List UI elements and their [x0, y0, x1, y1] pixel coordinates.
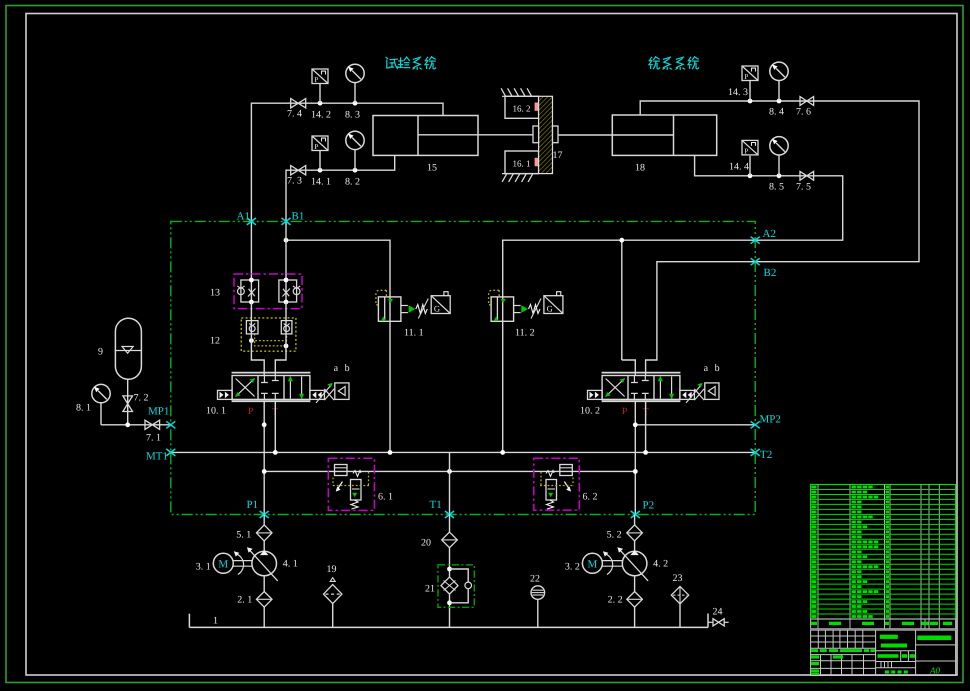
- valve 10.2 crossed arrows: [606, 379, 625, 397]
- check valve 13 right: [285, 280, 287, 302]
- svg-text:11. 1: 11. 1: [404, 328, 424, 339]
- svg-text:20: 20: [421, 538, 431, 549]
- wire pump column 4. 1: [263, 515, 265, 628]
- variable pump 4. 2: [622, 551, 647, 576]
- parts list table: [811, 485, 956, 620]
- wire B1 into block 13: [285, 221, 287, 280]
- gauge 8.4: [777, 99, 782, 104]
- svg-text:4. 1: 4. 1: [283, 559, 298, 570]
- variable pump 4. 1: [252, 551, 277, 576]
- valve 10.1 left solenoid: [218, 390, 233, 399]
- pilot lines 12: [251, 334, 286, 346]
- svg-text:P1: P1: [247, 499, 259, 511]
- wire A1 riser and gauge line: [251, 103, 443, 221]
- node A1: [247, 218, 256, 225]
- wire A2 loop: [503, 155, 843, 452]
- relief valve 6.1 pilot lines: [333, 472, 369, 486]
- valve 10.1 parallel arrows: [289, 377, 291, 399]
- svg-text:MT1: MT1: [146, 451, 168, 463]
- svg-text:7. 6: 7. 6: [796, 107, 811, 118]
- directional valve 10.2 body: [602, 372, 681, 374]
- svg-text:P: P: [744, 146, 748, 155]
- rotation arrow 3. 2: [604, 554, 612, 575]
- svg-text:2. 2: 2. 2: [608, 595, 623, 606]
- relief valve 6.1 pilot poppet: [335, 465, 348, 476]
- svg-text:8. 3: 8. 3: [345, 110, 360, 121]
- svg-text:6. 2: 6. 2: [583, 492, 598, 503]
- wire pump column 4. 2: [634, 515, 636, 628]
- tank rail 1: [189, 626, 708, 628]
- node T1: [445, 511, 454, 518]
- directional valve 10.1 body: [232, 372, 311, 374]
- svg-text:12: 12: [210, 336, 220, 347]
- svg-text:11. 2: 11. 2: [515, 328, 535, 339]
- valve 10.2 right solenoid: [680, 390, 695, 399]
- accumulator 9: [115, 318, 141, 379]
- rod coupling left: [533, 126, 539, 143]
- node B1: [282, 218, 291, 225]
- return filter 20: [449, 515, 451, 628]
- wire B1 riser and gauge line: [286, 155, 395, 221]
- support hatch top: [501, 88, 506, 96]
- title block texts: [811, 635, 951, 676]
- wire P relief rail: [264, 470, 635, 472]
- svg-text:7. 4: 7. 4: [287, 109, 302, 120]
- svg-text:5. 1: 5. 1: [236, 530, 251, 541]
- solenoid valve 11.2 pilot line: [489, 290, 500, 305]
- wire A2 jog into 10.2: [622, 360, 636, 376]
- force sensor 16.1: [505, 151, 539, 174]
- svg-text:8. 2: 8. 2: [345, 177, 360, 188]
- svg-text:T1: T1: [430, 499, 442, 511]
- valve 7.1: [145, 420, 152, 429]
- gauge 8.3: [354, 83, 356, 104]
- pressure sensor 14.4: [748, 173, 753, 178]
- return filter 2. 2: [627, 592, 643, 608]
- svg-text:22: 22: [530, 574, 540, 585]
- valve 7.5: [800, 171, 807, 180]
- solenoid valve 11.2 coil: [544, 296, 563, 314]
- svg-text:b: b: [345, 363, 350, 374]
- air breather 19: [332, 604, 334, 628]
- svg-text:3. 2: 3. 2: [565, 562, 580, 573]
- valve 7.2: [123, 396, 133, 404]
- rod coupling right: [553, 126, 559, 143]
- motor 3. 2: [582, 553, 602, 573]
- svg-text:18: 18: [635, 163, 645, 174]
- orifice block 12 boundary: [241, 318, 296, 351]
- svg-text:13: 13: [210, 288, 220, 299]
- svg-text:8. 5: 8. 5: [769, 182, 784, 193]
- node MT1: [166, 449, 175, 456]
- valve 10.1 spring box: [335, 383, 349, 400]
- valve 10.2 parallel arrows: [659, 377, 661, 399]
- svg-text:A2: A2: [763, 228, 776, 240]
- solenoid valve 11.2: [491, 297, 513, 321]
- valve 10.2 spring box: [705, 383, 719, 400]
- force sensor 16.2: [505, 96, 539, 118]
- svg-text:G: G: [434, 304, 440, 314]
- svg-text:3. 1: 3. 1: [196, 562, 211, 573]
- gauge 8.5: [777, 173, 782, 178]
- node P2: [631, 511, 640, 518]
- parts list header row: [811, 619, 956, 629]
- wire T1 riser: [449, 452, 451, 514]
- wire B1 branch to 11.1: [286, 240, 390, 452]
- suction filter 5. 2: [627, 525, 643, 541]
- valve 10.2 proportional slash: [686, 384, 702, 403]
- relief valve 6.2 pilot lines: [540, 472, 573, 486]
- svg-text:7. 3: 7. 3: [287, 176, 302, 187]
- svg-text:14. 1: 14. 1: [311, 177, 331, 188]
- air filter 23: [679, 604, 681, 628]
- valve 10.2 centre blocks: [631, 376, 649, 400]
- valve 10.1 crossed arrows: [236, 379, 255, 397]
- gauge 8.2: [354, 150, 356, 171]
- relief valve 6.1 main stage: [353, 471, 361, 477]
- svg-text:16. 1: 16. 1: [513, 159, 531, 169]
- svg-text:B1: B1: [292, 211, 305, 223]
- check valve block 13 boundary: [234, 274, 302, 309]
- wire A1 into block 13: [250, 221, 252, 280]
- svg-text:2. 1: 2. 1: [237, 595, 252, 606]
- svg-text:M: M: [588, 558, 598, 570]
- svg-text:a: a: [704, 363, 709, 374]
- node dot 8.2: [353, 168, 358, 173]
- svg-text:15: 15: [427, 163, 437, 174]
- valve 7.6: [800, 97, 807, 106]
- svg-text:a: a: [334, 363, 339, 374]
- solenoid valve 11.1: [378, 297, 401, 321]
- wire P2 from valve 10.2: [634, 401, 636, 514]
- wire A2 branch to valve 10.2 port: [621, 240, 623, 360]
- drain valve 24: [708, 621, 713, 623]
- node dot 8.3: [353, 101, 358, 106]
- wire P1 from valve 10.1: [263, 401, 265, 514]
- svg-text:M: M: [218, 558, 228, 570]
- svg-text:23: 23: [673, 573, 683, 584]
- svg-text:19: 19: [327, 564, 337, 575]
- svg-text:9: 9: [98, 347, 103, 358]
- svg-text:P: P: [314, 142, 318, 151]
- svg-text:14. 4: 14. 4: [729, 162, 749, 173]
- gauge 8.1: [100, 403, 102, 425]
- svg-text:P: P: [248, 407, 253, 417]
- svg-text:14. 3: 14. 3: [728, 87, 748, 98]
- svg-text:8. 1: 8. 1: [76, 403, 91, 414]
- solenoid valve 11.1 pilot line: [376, 290, 387, 305]
- svg-text:1: 1: [213, 616, 218, 627]
- svg-text:T2: T2: [760, 449, 772, 461]
- svg-text:P: P: [622, 407, 627, 417]
- svg-text:G: G: [547, 304, 553, 314]
- svg-text:21: 21: [425, 584, 435, 595]
- wire A1 through 13/12 to valve 10.1: [251, 302, 264, 376]
- load wall 17: [539, 96, 553, 173]
- shaft 3. 2-4. 2: [602, 560, 622, 562]
- return filter 2. 1: [256, 592, 272, 608]
- svg-text:MP2: MP2: [760, 414, 781, 426]
- manifold boundary: [171, 221, 755, 514]
- valve 10.2 left solenoid: [588, 390, 603, 399]
- wire MT1-T2 tank rail: [171, 451, 755, 453]
- pressure sensor 14.2: [319, 84, 321, 104]
- relief valve 6.2 boundary: [534, 458, 580, 510]
- node dot 14.1: [318, 168, 323, 173]
- svg-text:A0: A0: [929, 665, 940, 675]
- svg-text:6. 1: 6. 1: [378, 492, 393, 503]
- valve 7.3: [291, 166, 299, 175]
- node P1: [260, 511, 269, 518]
- valve 10.1 right solenoid: [310, 390, 325, 399]
- duplex filter 21: [447, 567, 452, 572]
- relief valve 6.2 pilot poppet: [560, 465, 573, 476]
- label load-system header: [649, 57, 699, 69]
- node dot 14.2: [318, 101, 323, 106]
- relief valve 6.1 boundary: [328, 458, 374, 510]
- node B2: [751, 258, 760, 265]
- orifice 12 right: [281, 321, 292, 334]
- svg-text:4. 2: 4. 2: [653, 559, 668, 570]
- relief valve 6.2 main stage: [546, 471, 554, 477]
- node T2: [751, 449, 760, 456]
- svg-text:7. 2: 7. 2: [134, 393, 149, 404]
- svg-text:B2: B2: [764, 267, 777, 279]
- solenoid valve 11.1 coil: [431, 296, 450, 314]
- node MP2: [751, 421, 760, 428]
- node MP1: [166, 421, 175, 428]
- level gauge 22: [537, 599, 539, 627]
- label test-system header: [386, 57, 436, 69]
- solenoid valve 11.1 actuator: [401, 305, 408, 307]
- check valve 13 left: [250, 280, 252, 302]
- wire MP2 line: [635, 424, 755, 426]
- support hatch bottom: [502, 174, 507, 182]
- svg-text:24: 24: [713, 607, 723, 618]
- rotation arrow 3. 1: [235, 554, 243, 575]
- svg-text:10. 2: 10. 2: [580, 406, 600, 417]
- svg-text:14. 2: 14. 2: [311, 110, 331, 121]
- motor 3. 1: [213, 553, 233, 573]
- svg-text:A1: A1: [237, 211, 250, 223]
- svg-text:P: P: [314, 75, 318, 84]
- suction filter 5. 1: [256, 525, 272, 541]
- pressure sensor 14.1: [319, 151, 321, 171]
- shaft 3. 1-4. 1: [233, 560, 252, 562]
- svg-text:7. 5: 7. 5: [796, 182, 811, 193]
- wire T from valve 10.2: [645, 401, 647, 452]
- cylinder 15: [373, 116, 478, 156]
- valve 7.4: [291, 99, 299, 108]
- node A2: [751, 237, 760, 244]
- svg-text:P2: P2: [643, 500, 655, 512]
- cylinder 18: [612, 115, 716, 155]
- orifice 12 left: [246, 321, 258, 334]
- duplex filter 21 boundary: [438, 565, 474, 608]
- svg-text:16. 2: 16. 2: [513, 104, 531, 114]
- svg-text:17: 17: [553, 150, 563, 161]
- valve 10.1 centre blocks: [261, 376, 279, 400]
- wire T from valve 10.1: [274, 401, 276, 452]
- svg-text:5. 2: 5. 2: [607, 530, 622, 541]
- svg-text:P: P: [744, 72, 748, 81]
- title block: [811, 630, 956, 675]
- valve 10.1 proportional slash: [316, 384, 332, 403]
- svg-text:10. 1: 10. 1: [206, 406, 226, 417]
- svg-text:MP1: MP1: [148, 406, 169, 418]
- wire B1 through 13/12 to valve 10.1: [275, 302, 286, 376]
- svg-text:b: b: [715, 363, 720, 374]
- svg-text:7. 1: 7. 1: [146, 433, 161, 444]
- wire gauge line MP1: [101, 424, 171, 426]
- wire accumulator to line: [127, 380, 129, 425]
- wire B2 loop: [640, 101, 919, 376]
- pressure sensor 14.3: [748, 99, 753, 104]
- svg-text:8. 4: 8. 4: [769, 107, 784, 118]
- solenoid valve 11.2 actuator: [514, 305, 521, 307]
